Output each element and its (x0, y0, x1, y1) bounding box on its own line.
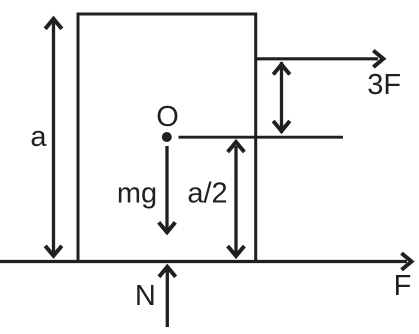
dimension arrow between 3F line and O line (double-headed) (273, 62, 290, 133)
svg-text:F: F (394, 270, 412, 302)
dimension arrow a/2 (double-headed) (228, 142, 245, 257)
svg-text:a: a (30, 121, 47, 153)
svg-text:mg: mg (117, 177, 157, 209)
ground line (0, 260, 407, 263)
svg-text:a/2: a/2 (187, 178, 227, 210)
svg-text:3F: 3F (367, 69, 401, 101)
svg-text:N: N (135, 280, 156, 312)
horizontal line through O (179, 136, 344, 139)
force arrow 3F (255, 51, 383, 68)
svg-text:O: O (156, 101, 179, 133)
normal force arrow N (159, 267, 176, 327)
weight arrow mg (159, 146, 176, 232)
point O dot (162, 132, 172, 142)
arrowhead of ground arrow F (402, 253, 412, 270)
dimension arrow a (left side, double-headed) (45, 18, 62, 256)
block (square of side a) (78, 14, 256, 262)
